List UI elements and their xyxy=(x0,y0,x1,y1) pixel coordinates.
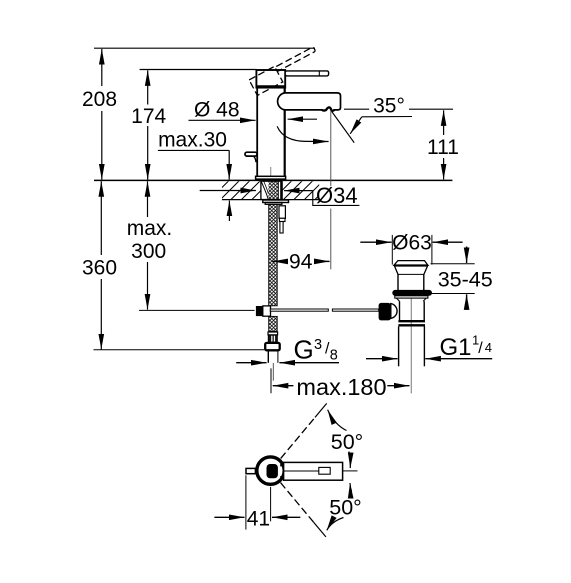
dimension 35 degrees xyxy=(350,95,412,134)
svg-text:max.180: max.180 xyxy=(296,374,386,400)
handle cap xyxy=(256,70,286,88)
svg-text:3: 3 xyxy=(314,337,322,353)
dimension 50 degrees upper xyxy=(328,410,364,468)
dimension 35-45 xyxy=(431,247,493,311)
dimension G1 1/4 xyxy=(366,332,492,361)
spray angle line xyxy=(332,111,355,142)
dimension max.300 xyxy=(127,181,255,310)
dimension diameter 34 xyxy=(200,183,360,208)
seal ring xyxy=(392,290,432,296)
cartridge hole xyxy=(267,464,283,478)
deck surface line xyxy=(94,179,452,181)
pop-up rod xyxy=(270,309,378,311)
svg-text:G1: G1 xyxy=(440,334,472,361)
mounting stud xyxy=(279,206,285,233)
svg-text:4: 4 xyxy=(485,340,492,355)
dimension max.180 xyxy=(271,368,410,400)
dimension 94 xyxy=(273,251,330,274)
aerator heavy underside xyxy=(322,107,334,110)
connector nut G3/8 xyxy=(265,343,280,350)
deck underside line xyxy=(222,199,319,201)
hose nut dark xyxy=(268,335,277,343)
svg-text:Ø63: Ø63 xyxy=(392,231,432,254)
ball rod boss xyxy=(391,304,397,319)
handle swing lower dashed xyxy=(281,483,326,537)
svg-text:41: 41 xyxy=(247,508,270,531)
svg-text:35-45: 35-45 xyxy=(438,268,493,292)
svg-text:50°: 50° xyxy=(329,496,362,520)
dimension diameter 63 xyxy=(360,231,462,264)
rod knob xyxy=(379,303,391,321)
svg-text:50°: 50° xyxy=(331,430,364,454)
svg-text:174: 174 xyxy=(131,105,166,128)
svg-text:G: G xyxy=(294,335,314,365)
spout swivel arc xyxy=(277,126,328,141)
svg-text:35°: 35° xyxy=(373,95,405,118)
mounting nut xyxy=(263,200,289,204)
svg-text:208: 208 xyxy=(82,88,117,111)
drain tube lower xyxy=(399,327,425,367)
drain plug xyxy=(394,261,428,266)
pull rod knob xyxy=(245,152,257,162)
tailpiece centerline xyxy=(272,363,274,381)
faucet body left edge xyxy=(256,87,258,177)
supply hose lower xyxy=(269,316,278,331)
tailpiece G3/8 xyxy=(267,350,269,362)
dimension 360 xyxy=(82,181,117,349)
drain centerline xyxy=(410,297,412,393)
spout outlet centerline xyxy=(330,111,332,187)
dimension diameter 48 xyxy=(189,99,318,122)
svg-text:111: 111 xyxy=(427,136,459,159)
top view lever xyxy=(284,462,358,480)
dimension max.30 xyxy=(158,129,230,222)
deck hatching right xyxy=(280,181,319,199)
dimension 111 xyxy=(427,110,459,179)
svg-text:300: 300 xyxy=(131,240,166,263)
svg-text:max.: max. xyxy=(127,217,173,240)
base plate xyxy=(256,176,286,180)
dimension 41 xyxy=(214,475,300,530)
handle lever xyxy=(285,71,328,76)
max handle height line xyxy=(94,47,315,49)
spout xyxy=(278,93,341,111)
drain tube upper xyxy=(400,301,425,321)
handle rest height line xyxy=(140,69,257,71)
svg-text:Ø 48: Ø 48 xyxy=(194,99,240,122)
drain collar xyxy=(395,296,428,301)
dimension 50 degrees lower xyxy=(327,483,362,530)
faucet centerline xyxy=(270,167,272,180)
handle swing upper dashed xyxy=(281,403,327,458)
hose collar xyxy=(268,332,278,335)
coupling nut xyxy=(398,321,425,325)
dimension 208 xyxy=(82,49,117,180)
shank xyxy=(261,181,282,199)
drain upper body xyxy=(398,274,424,290)
svg-text:360: 360 xyxy=(82,257,117,280)
svg-text:8: 8 xyxy=(330,348,338,364)
raised handle dashed outline xyxy=(249,46,321,95)
supply hose upper xyxy=(269,204,278,305)
pop-up rod clamp xyxy=(256,306,270,316)
svg-text:Ø34: Ø34 xyxy=(316,183,358,208)
svg-text:max.30: max.30 xyxy=(158,129,227,152)
dimension 174 xyxy=(131,70,166,179)
bottom reference line 360 xyxy=(94,349,265,351)
deck hatching left xyxy=(222,181,261,199)
svg-text:94: 94 xyxy=(289,251,313,274)
drain flange cone xyxy=(395,266,428,274)
dimension G3/8 xyxy=(236,335,339,365)
top view body circle xyxy=(257,457,284,484)
svg-text:/: / xyxy=(478,340,483,357)
mixer stub xyxy=(246,468,255,473)
spout height reference line xyxy=(344,108,369,110)
faucet body right edge xyxy=(284,87,286,177)
